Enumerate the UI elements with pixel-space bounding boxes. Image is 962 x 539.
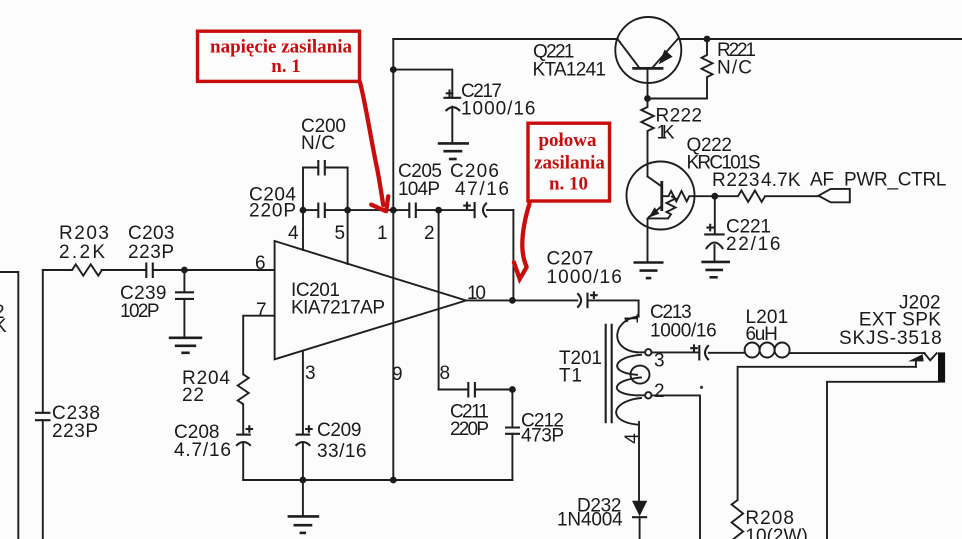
svg-text:220P: 220P [249, 201, 296, 222]
svg-text:R203: R203 [59, 223, 109, 244]
capacitor C238 223P [35, 403, 100, 442]
wire C217 branch [393, 70, 452, 98]
wire base to R221 bottom [648, 98, 708, 100]
svg-text:1: 1 [622, 313, 643, 324]
svg-text:SKJS-3518: SKJS-3518 [839, 328, 942, 349]
resistor R222 1K [641, 99, 702, 144]
resistor R221 N/C [702, 39, 757, 99]
wire pin7 net [243, 316, 274, 375]
wire R222 to Q222 [647, 134, 649, 177]
svg-text:2: 2 [654, 381, 665, 402]
svg-text:4.7/16: 4.7/16 [174, 440, 231, 461]
capacitor C212 473P [505, 390, 564, 481]
wire Q222 to node [695, 195, 739, 197]
connector AF_PWR_CTRL tag [810, 170, 948, 203]
node pin1 net junction at x393 y69 [390, 66, 397, 73]
ground below C221 [701, 262, 730, 277]
svg-text:8: 8 [440, 363, 451, 384]
svg-text:T1: T1 [559, 366, 582, 387]
svg-text:1N4004: 1N4004 [557, 510, 623, 531]
capacitor C209 33/16 [296, 420, 367, 480]
svg-text:połowa: połowa [538, 130, 597, 151]
wire tap3 to C213 [651, 351, 699, 353]
svg-text:N/C: N/C [301, 133, 335, 154]
capacitor C217 [443, 81, 535, 143]
transistor Q221 [533, 17, 682, 99]
node C209 ground junction [300, 477, 307, 484]
node C204 right [344, 207, 351, 214]
svg-text:N/C: N/C [717, 58, 752, 79]
wire pin5 lead [347, 210, 349, 264]
svg-text:220P: 220P [450, 419, 489, 440]
wire C206 down link [512, 210, 514, 300]
op-amp IC201 KIA7217AP [275, 241, 466, 359]
svg-text:KTA1241: KTA1241 [533, 60, 607, 81]
capacitor C221 22/16 [704, 196, 780, 262]
wire main vertical pin1/pin9 line [392, 39, 394, 480]
svg-text:1000/16: 1000/16 [461, 99, 536, 120]
node pin1 [390, 207, 397, 214]
svg-text:22: 22 [182, 385, 204, 406]
transformer T201 T1 [559, 313, 665, 443]
capacitor C213 1000/16 [650, 302, 717, 361]
capacitor C200 N/C loop [301, 116, 348, 210]
wire pin1 node horizontal [303, 209, 513, 211]
wire top rail right segment [679, 38, 962, 40]
wire pin8 horizontal [439, 389, 513, 391]
node pin9 rail junction [390, 477, 397, 484]
wire pin3 lead [302, 351, 304, 435]
svg-text:zasilania: zasilania [534, 153, 605, 174]
node C211 junction [509, 386, 516, 393]
svg-text:4: 4 [288, 223, 299, 244]
connector J202 EXT SPK jack [839, 293, 945, 383]
wire pin6 net [43, 269, 275, 271]
wire L201 to jack tip [790, 352, 925, 354]
svg-text:223P: 223P [128, 242, 174, 263]
transistor Q222 KRC101S digital [627, 135, 761, 262]
svg-text:2.2K: 2.2K [59, 242, 105, 263]
svg-text:1000/16: 1000/16 [547, 267, 622, 288]
svg-text:K: K [0, 316, 7, 337]
svg-text:2: 2 [424, 223, 435, 244]
svg-text:3: 3 [305, 363, 316, 384]
wire pin10 output node [466, 299, 577, 301]
annotation box napiecie zasilania n.1 [198, 31, 360, 81]
resistor R203 2.2K [59, 223, 109, 276]
svg-text:223P: 223P [52, 421, 98, 442]
svg-text:102P: 102P [120, 301, 160, 322]
svg-text:5: 5 [335, 223, 346, 244]
svg-text:R223: R223 [712, 170, 760, 191]
svg-text:6: 6 [255, 253, 266, 274]
svg-text:7: 7 [256, 300, 267, 321]
svg-text:AF_PWR_CTRL: AF_PWR_CTRL [810, 170, 948, 191]
svg-text:473P: 473P [521, 426, 564, 447]
capacitor C239 102P [120, 270, 194, 338]
wire left edge stub [0, 272, 18, 539]
resistor R223 4.7K [712, 170, 801, 202]
svg-text:9: 9 [392, 364, 403, 385]
ground below C239 [169, 338, 202, 353]
svg-text:47/16: 47/16 [455, 179, 509, 200]
diode D232 1N4004 [557, 496, 647, 539]
wire jack sleeve [827, 382, 938, 539]
resistor R208 10(2W) [732, 500, 808, 539]
node C239 junction [181, 267, 188, 274]
capacitor C208 4.7/16 [174, 422, 253, 480]
resistor R204 22 [182, 368, 249, 406]
svg-text:6uH: 6uH [746, 324, 778, 345]
wire top rail left segment [393, 38, 617, 40]
wire pin4 lead [302, 210, 304, 250]
capacitor C204 220P [249, 185, 325, 222]
svg-text:3: 3 [654, 351, 665, 372]
svg-text:C203: C203 [128, 223, 175, 244]
wire pin2 pin8 vertical [438, 210, 440, 389]
capacitor C211 220P [450, 382, 489, 440]
svg-text:n. 10: n. 10 [549, 174, 588, 195]
svg-text:4.7K: 4.7K [761, 170, 801, 191]
svg-text:KIA7217AP: KIA7217AP [291, 298, 385, 319]
svg-text:1: 1 [377, 223, 388, 244]
wire left vertical with C238 [42, 270, 44, 539]
capacitor C205 104P [398, 161, 442, 218]
wire R204 to C208 [242, 404, 244, 434]
svg-text:n. 1: n. 1 [271, 56, 301, 77]
capacitor C203 223P [128, 223, 175, 278]
stray dot mark [700, 386, 703, 389]
node R223 C221 junction [711, 193, 718, 200]
svg-text:1000/16: 1000/16 [650, 321, 717, 342]
wire C213 to L201 [709, 352, 745, 354]
ground below rail [288, 480, 320, 533]
node C204 left [300, 207, 307, 214]
node pin10 junction [509, 297, 516, 304]
inductor L201 6uH [745, 307, 790, 358]
annotation arrow to pin10 [514, 204, 530, 280]
ground below C217 [438, 143, 469, 159]
capacitor C207 1000/16 [547, 249, 639, 317]
wire jack arrow contact to R208 [738, 367, 916, 500]
svg-text:104P: 104P [398, 179, 440, 200]
svg-text:10(2W): 10(2W) [745, 526, 807, 539]
svg-text:22/16: 22/16 [726, 234, 781, 255]
svg-text:C209: C209 [317, 420, 362, 441]
wire tap2 down [651, 395, 700, 539]
wire R223 to connector [765, 195, 819, 197]
svg-text:1K: 1K [657, 123, 675, 144]
wire bottom rail [243, 479, 512, 481]
capacitor C206 47/16 [450, 161, 509, 218]
node pin2 [435, 207, 442, 214]
annotation box polowa zasilania n.10 [528, 123, 610, 201]
svg-text:napięcie zasilania: napięcie zasilania [210, 36, 352, 57]
ground below Q222 emitter [634, 263, 664, 279]
svg-text:33/16: 33/16 [317, 441, 367, 462]
wire transformer pin4 down [638, 422, 640, 501]
node base junction [644, 95, 651, 102]
node collector junction R221 [704, 36, 711, 43]
annotation arrow to pin1 [360, 82, 388, 212]
